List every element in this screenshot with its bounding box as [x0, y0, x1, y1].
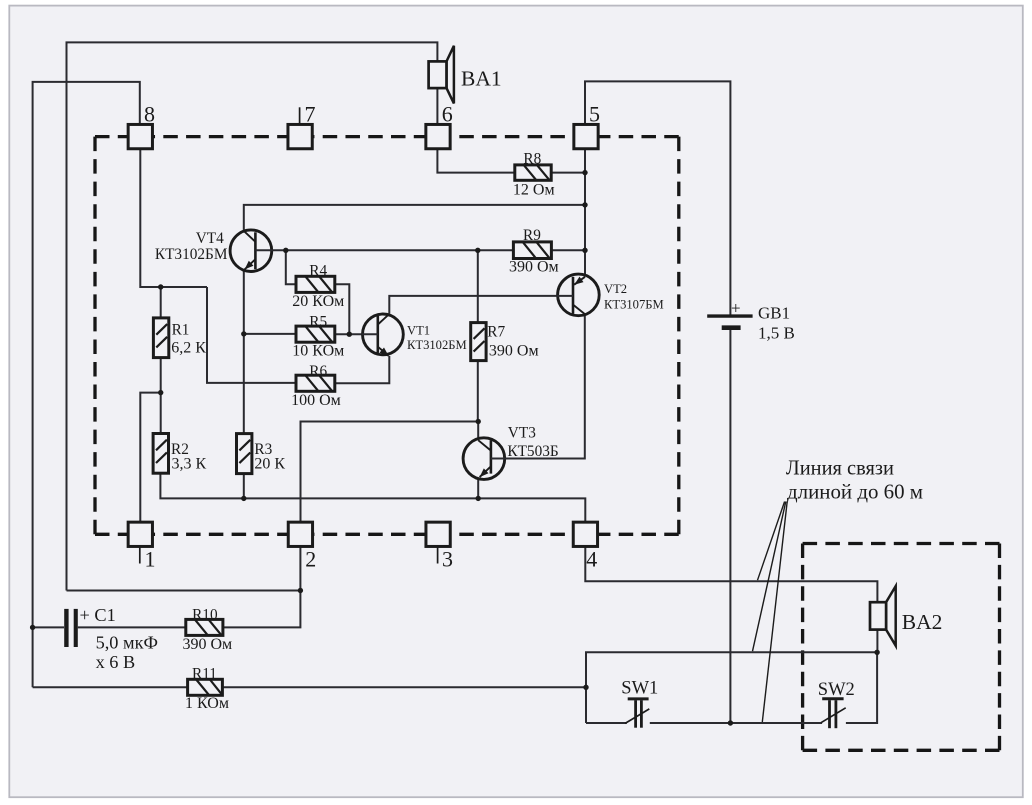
wire R7 bottom — [477, 361, 479, 422]
dashed box remote unit — [803, 544, 1000, 751]
svg-text:VT2: VT2 — [604, 282, 627, 296]
terminal square 2 — [288, 522, 312, 546]
svg-text:390 Ом: 390 Ом — [489, 343, 539, 360]
terminal tick 7 — [299, 107, 301, 124]
terminal square 3 — [426, 522, 450, 546]
svg-text:20 КОм: 20 КОм — [292, 293, 344, 310]
transistor VT4 — [230, 230, 273, 272]
wire node6 to R8 — [437, 149, 514, 173]
wire VT4 collector line — [244, 205, 585, 230]
switch SW1 — [625, 699, 649, 728]
node dot base line R4 — [283, 248, 288, 253]
wire VT1 collector to VT2 base — [389, 296, 573, 314]
resistor R10 — [186, 619, 223, 635]
wire VT4 base line to R9 — [255, 249, 513, 251]
resistor R1 — [153, 318, 168, 358]
svg-text:GB1: GB1 — [758, 304, 790, 323]
svg-text:390 Ом: 390 Ом — [183, 636, 233, 653]
svg-text:R4: R4 — [309, 263, 327, 280]
node dot base line R7 — [475, 248, 480, 253]
svg-text:Линия связи: Линия связи — [786, 456, 894, 480]
terminal square 5 — [574, 124, 598, 148]
wire line-A node4 to BA2 — [585, 546, 877, 602]
resistor R8 — [515, 165, 551, 180]
wire R2 bottom rail to pin4 — [160, 473, 585, 522]
wire R1 bottom jog — [140, 358, 160, 523]
node dot R7 bottom — [476, 419, 481, 424]
wire BA2 bottom stub — [876, 630, 878, 653]
svg-text:КТ3107БМ: КТ3107БМ — [604, 298, 664, 312]
wire R7 top branch — [477, 250, 479, 322]
resistor R9 — [513, 242, 551, 259]
wire node2 line — [301, 422, 479, 523]
svg-text:12 Ом: 12 Ом — [513, 182, 555, 199]
capacitor C1 — [64, 609, 78, 647]
svg-text:BA1: BA1 — [461, 67, 502, 91]
wire line-B — [586, 652, 877, 723]
resistor R11 — [188, 679, 223, 695]
svg-text:1,5 В: 1,5 В — [758, 324, 795, 343]
wire R5 left — [244, 333, 297, 335]
svg-text:100 Ом: 100 Ом — [291, 392, 341, 409]
node dot VT1 base — [347, 332, 352, 337]
svg-text:R6: R6 — [309, 363, 327, 380]
node dot R9 right — [582, 248, 587, 253]
terminal square 8 — [128, 124, 152, 148]
wire R11 line — [33, 686, 586, 688]
wire R1 top stub — [160, 287, 162, 318]
svg-text:7: 7 — [305, 102, 316, 127]
node dot VT3 emitter — [476, 496, 481, 501]
wire VT3 base to VT2 — [491, 314, 585, 458]
wire R8 right — [551, 172, 585, 174]
svg-text:6,2 К: 6,2 К — [171, 340, 206, 357]
resistor R7 — [471, 323, 486, 361]
dashed box main unit — [95, 137, 679, 535]
node dot R3 bottom — [241, 496, 246, 501]
wire BA1 top line — [67, 42, 438, 590]
wire R9 right — [551, 249, 585, 251]
svg-text:R8: R8 — [523, 151, 541, 168]
resistor R6 — [296, 375, 335, 391]
wire BA1 bottom to node6 — [436, 88, 438, 124]
svg-text:КТ3102БМ: КТ3102БМ — [407, 338, 467, 352]
svg-text:R10: R10 — [192, 606, 218, 623]
svg-text:20 К: 20 К — [254, 456, 285, 473]
svg-text:3: 3 — [442, 546, 453, 571]
wire pin8 to R1 node — [140, 149, 207, 287]
svg-text:6: 6 — [442, 102, 453, 127]
svg-text:4: 4 — [586, 546, 597, 571]
node dot VT4 emitter / R5 — [241, 331, 246, 336]
svg-text:VT3: VT3 — [508, 425, 536, 442]
svg-text:2: 2 — [305, 546, 316, 571]
svg-text:КТ503Б: КТ503Б — [507, 443, 558, 460]
resistor R4 — [296, 276, 335, 292]
node dot C1 left — [30, 625, 35, 630]
terminal tick 3 — [437, 547, 439, 564]
wire line-C through switches — [586, 652, 877, 723]
svg-text:10 КОм: 10 КОм — [292, 343, 344, 360]
wire pin8 riser — [33, 82, 140, 687]
terminal square 7 — [288, 124, 312, 148]
switch SW2 — [821, 699, 846, 728]
svg-text:1: 1 — [145, 546, 156, 571]
speaker BA1 — [429, 46, 454, 104]
wire BA1-top to node2 bottom — [67, 590, 301, 592]
resistor R5 — [296, 326, 335, 342]
svg-text:R7: R7 — [487, 324, 505, 341]
svg-text:х 6 В: х 6 В — [96, 652, 136, 672]
resistor R3 — [237, 434, 252, 474]
wire R6 right to VT1 emitter — [335, 356, 390, 383]
svg-text:1 КОм: 1 КОм — [185, 695, 229, 712]
node dot VT4 collector line — [582, 202, 587, 207]
svg-text:VT4: VT4 — [196, 230, 224, 247]
wire R3 column VT4 emitter — [243, 271, 245, 434]
svg-text:+: + — [731, 299, 741, 318]
svg-text:длиной до 60 м: длиной до 60 м — [787, 480, 923, 504]
wire R5 right to VT1 base — [335, 333, 378, 335]
wire to R6 left — [207, 287, 297, 383]
wire VT3 emitter stub — [477, 479, 479, 498]
node dot R1 bottom — [158, 390, 163, 395]
node dot R8 right — [582, 170, 587, 175]
terminal square 1 — [128, 522, 152, 546]
wire battery bottom — [729, 330, 731, 724]
terminal square 4 — [573, 522, 597, 546]
svg-text:390 Ом: 390 Ом — [509, 259, 559, 276]
wire battery top — [585, 81, 730, 314]
wire node5 column — [584, 149, 586, 276]
svg-text:3,3 К: 3,3 К — [172, 456, 207, 473]
wire R4 right branch — [335, 284, 350, 334]
node dot BA2 bottom — [874, 650, 879, 655]
speaker BA2 — [870, 586, 896, 646]
svg-text:R5: R5 — [309, 313, 327, 330]
node dot R11 right — [583, 685, 588, 690]
wire R3 bottom stub — [243, 474, 245, 499]
node dot node2 R10 — [298, 588, 303, 593]
svg-text:R11: R11 — [192, 666, 217, 683]
svg-text:VT1: VT1 — [407, 324, 430, 338]
battery GB1 — [707, 316, 752, 328]
svg-text:R1: R1 — [172, 322, 190, 339]
svg-text:8: 8 — [144, 102, 155, 127]
wire R2 top stub — [160, 393, 162, 434]
svg-text:SW1: SW1 — [621, 679, 658, 699]
transistor VT3 — [463, 438, 506, 480]
svg-text:5: 5 — [589, 102, 600, 127]
wire C1 line — [33, 626, 186, 628]
node dot R1 top — [158, 284, 163, 289]
resistor R2 — [153, 434, 168, 474]
wire R10 right to node2 — [223, 546, 301, 627]
svg-text:5,0 мкФ: 5,0 мкФ — [96, 633, 158, 653]
svg-text:КТ3102БМ: КТ3102БМ — [155, 246, 228, 263]
transistor VT1 — [362, 314, 404, 356]
terminal square 6 — [426, 124, 450, 148]
svg-text:+ C1: + C1 — [80, 605, 116, 625]
svg-text:BA2: BA2 — [902, 610, 943, 634]
terminal tick 1 — [139, 547, 141, 564]
node dot battery line-C — [728, 720, 733, 725]
transistor VT2 — [557, 274, 600, 316]
wire R4 left branch — [286, 250, 296, 284]
svg-text:R9: R9 — [523, 227, 541, 244]
svg-text:SW2: SW2 — [818, 680, 855, 700]
leader lines Линия связи — [753, 502, 788, 723]
wire VT3 collector stub — [477, 422, 479, 438]
